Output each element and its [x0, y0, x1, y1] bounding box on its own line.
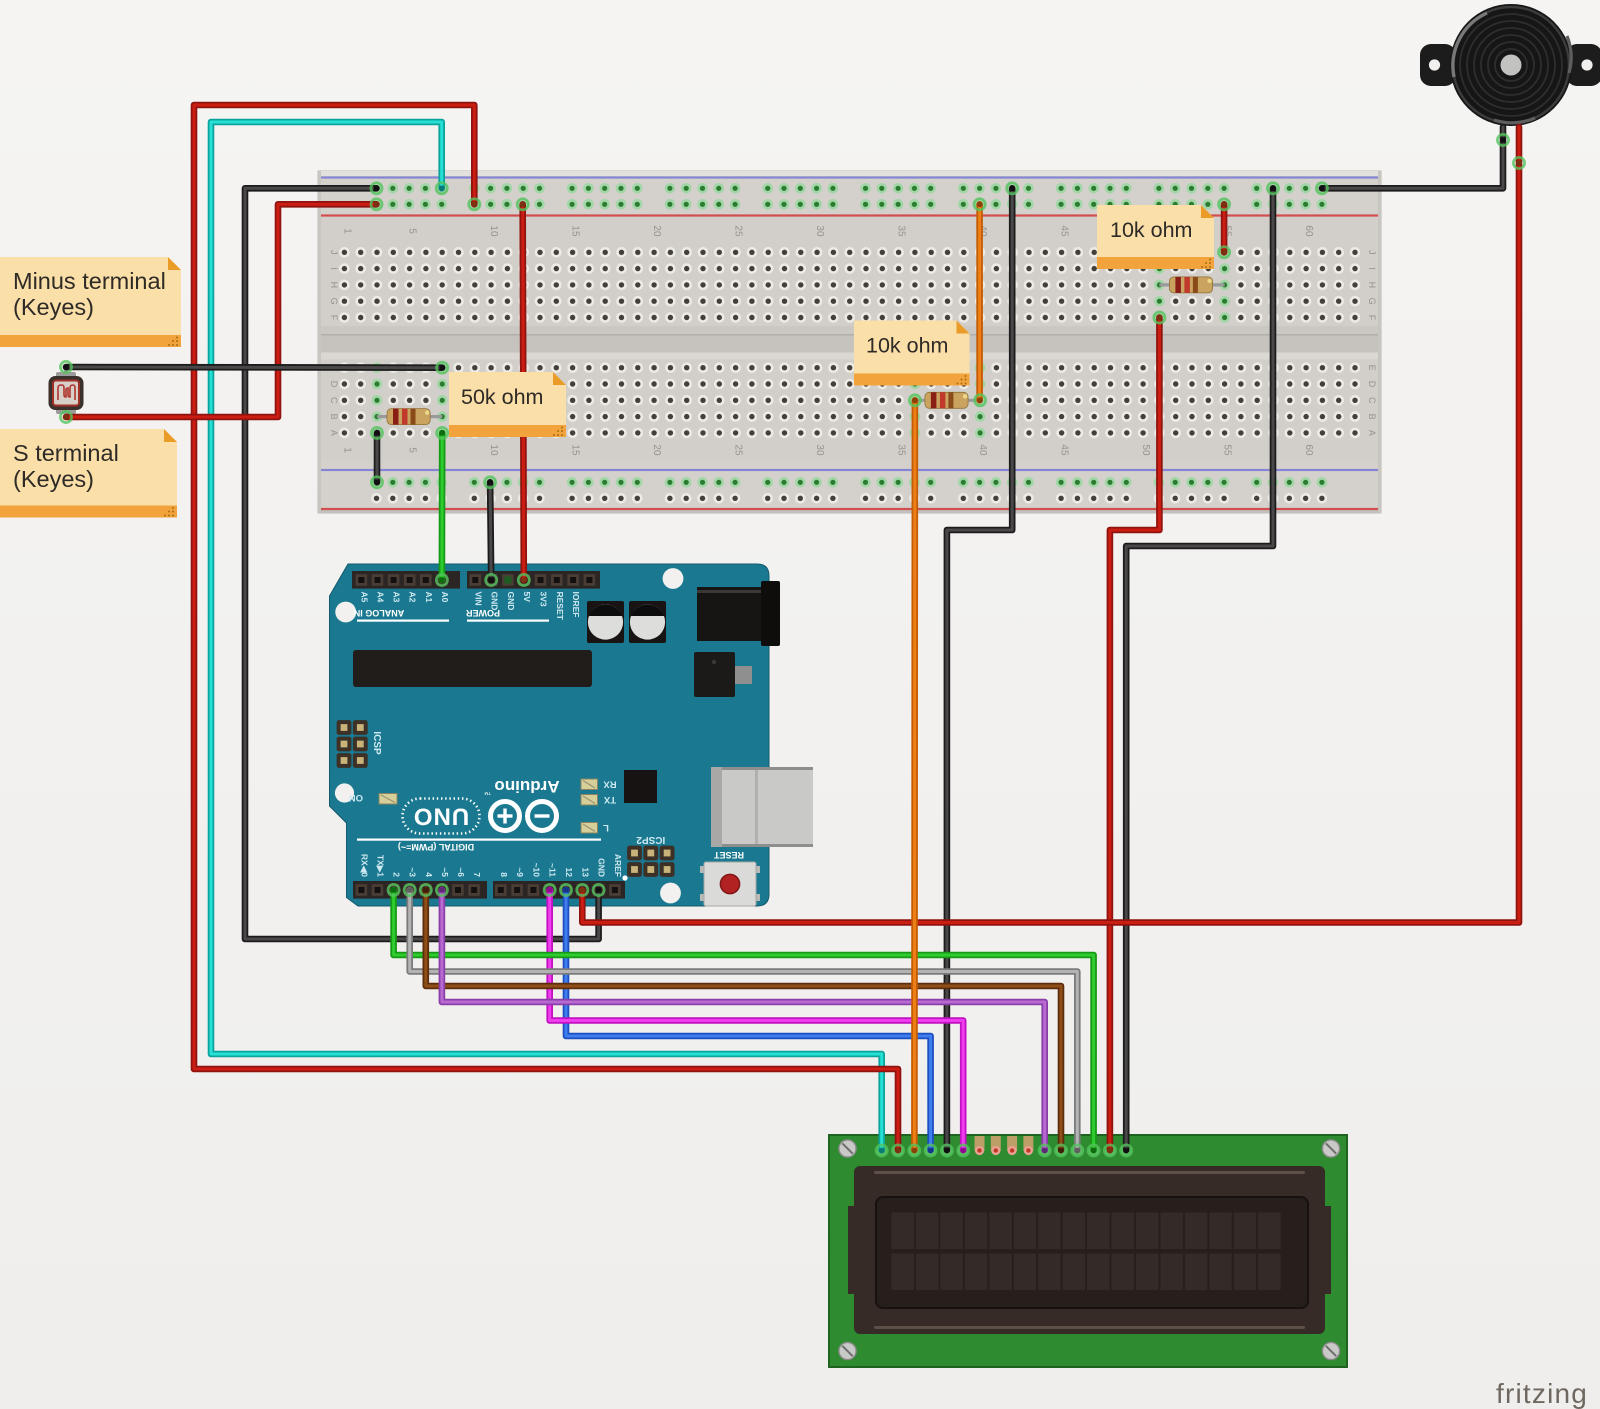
svg-text:VIN: VIN: [473, 592, 483, 606]
svg-text:TX▶1: TX▶1: [376, 855, 386, 877]
resistor R3 10k ohm: [1159, 277, 1224, 293]
svg-text:RX: RX: [603, 779, 617, 790]
svg-text:A0: A0: [440, 592, 450, 603]
wire green Arduino 2 to LCD D2 (green): [394, 890, 1094, 1150]
photoresistor LDR: [49, 367, 84, 417]
wire green breadboard A7 to Arduino A0 (green): [439, 433, 446, 580]
svg-text:A2: A2: [408, 592, 418, 603]
svg-text:GND: GND: [490, 592, 500, 611]
svg-text:30: 30: [814, 444, 825, 456]
svg-text:1: 1: [341, 228, 352, 234]
svg-text:D: D: [1367, 381, 1377, 388]
svg-text:~10: ~10: [531, 863, 541, 878]
wire brown Arduino 4 to LCD D4 (brown): [426, 890, 1061, 1150]
resistor R2 10k ohm: [915, 392, 980, 408]
wire purple Arduino 5 to LCD D5 (purple): [442, 890, 1045, 1150]
svg-text:RESET: RESET: [713, 850, 744, 860]
svg-text:45: 45: [1059, 444, 1070, 456]
arduino power header: [467, 571, 600, 589]
svg-text:I: I: [329, 267, 339, 270]
svg-text:TX: TX: [603, 794, 616, 805]
svg-text:(Keyes): (Keyes): [13, 466, 94, 492]
RESET button: [700, 850, 760, 906]
svg-text:7: 7: [472, 872, 482, 877]
svg-text:A1: A1: [424, 592, 434, 603]
wire red breadboard F51 to LCD A (red): [1110, 318, 1160, 1151]
note 50k ohm: [449, 372, 566, 437]
svg-text:8: 8: [499, 872, 509, 877]
svg-text:45: 45: [1059, 225, 1070, 237]
svg-text:20: 20: [651, 444, 662, 456]
svg-text:~5: ~5: [440, 867, 450, 877]
svg-text:TM: TM: [484, 791, 491, 796]
Arduino logo: [491, 802, 557, 831]
capacitor C1: [587, 601, 624, 643]
svg-text:30: 30: [814, 225, 825, 237]
svg-text:ICSP: ICSP: [371, 731, 382, 755]
svg-text:10k ohm: 10k ohm: [866, 334, 948, 358]
svg-text:ICSP2: ICSP2: [636, 834, 665, 845]
svg-text:20: 20: [651, 225, 662, 237]
svg-text:D: D: [329, 381, 339, 388]
wire orange resistor R2 to LCD V0 (orange): [911, 400, 918, 1150]
wire black buzzer - to GND rail (black): [1322, 127, 1503, 188]
svg-text:POWER: POWER: [466, 608, 501, 618]
svg-text:4: 4: [424, 872, 434, 877]
svg-text:5: 5: [407, 447, 418, 453]
wire black jumper A3 to -rail bottom (black): [374, 433, 381, 482]
svg-text:AREF: AREF: [613, 854, 623, 877]
svg-text:ON: ON: [349, 792, 363, 803]
svg-text:ANALOG IN: ANALOG IN: [354, 608, 405, 618]
svg-text:Arduino: Arduino: [494, 777, 559, 796]
wire red +rail to LDR (red): [66, 204, 377, 417]
svg-text:RX◀0: RX◀0: [359, 854, 369, 877]
svg-text:A4: A4: [376, 592, 386, 603]
svg-text:G: G: [329, 298, 339, 305]
svg-text:C: C: [329, 397, 339, 404]
wire cyan GND-rail to LCD VSS (cyan): [211, 122, 882, 1150]
arduino pin labels: [359, 592, 623, 878]
svg-text:(Keyes): (Keyes): [13, 294, 94, 320]
svg-text:J: J: [1367, 250, 1377, 255]
ICSP header: [337, 720, 382, 768]
wire black rail to LCD K (black): [1126, 188, 1273, 1150]
capacitor C2: [629, 601, 666, 643]
svg-text:~9: ~9: [515, 867, 525, 877]
svg-text:13: 13: [580, 868, 590, 878]
svg-text:12: 12: [564, 868, 574, 878]
svg-text:S terminal: S terminal: [13, 440, 119, 466]
svg-text:15: 15: [570, 225, 581, 237]
svg-text:55: 55: [1222, 444, 1233, 456]
svg-text:E: E: [1367, 365, 1377, 371]
svg-text:15: 15: [570, 444, 581, 456]
svg-text:Minus terminal: Minus terminal: [13, 268, 166, 294]
svg-text:2: 2: [392, 872, 402, 877]
svg-text:~6: ~6: [456, 867, 466, 877]
svg-text:GND: GND: [506, 592, 516, 611]
svg-text:60: 60: [1303, 225, 1314, 237]
svg-text:60: 60: [1303, 444, 1314, 456]
svg-text:A3: A3: [392, 592, 402, 603]
USB connector: [711, 767, 813, 847]
note 10k ohm right: [1097, 205, 1214, 269]
svg-text:5V: 5V: [522, 592, 532, 603]
svg-text:GND: GND: [597, 858, 607, 877]
svg-text:25: 25: [733, 444, 744, 456]
Arduino UNO board U1: [330, 564, 770, 906]
wire red Arduino 13 to buzzer + (red): [582, 127, 1519, 923]
svg-text:IOREF: IOREF: [571, 592, 581, 618]
svg-text:10: 10: [488, 225, 499, 237]
svg-text:5: 5: [407, 228, 418, 234]
svg-text:L: L: [603, 822, 609, 833]
svg-text:A: A: [329, 430, 339, 436]
note 10k ohm mid: [854, 321, 970, 386]
breadboard labels: [329, 225, 1377, 456]
wire black breadboard row1 to LCD RW (black): [947, 188, 1012, 1150]
svg-text:35: 35: [896, 444, 907, 456]
svg-text:50k ohm: 50k ohm: [461, 385, 543, 409]
LCD1602 display module: [829, 1135, 1347, 1367]
svg-text:50: 50: [1140, 444, 1151, 456]
svg-text:H: H: [329, 282, 339, 289]
svg-text:F: F: [329, 315, 339, 321]
wire red jumper +rail to J55 (red): [1221, 204, 1228, 252]
note s terminal: [0, 429, 177, 518]
svg-text:I: I: [1367, 267, 1377, 270]
power barrel jack: [697, 581, 780, 646]
UNO logo: [403, 799, 480, 834]
svg-text:fritzing: fritzing: [1496, 1378, 1588, 1409]
arduino mounting holes: [335, 568, 683, 903]
breadboard main grid holes: [339, 247, 1360, 438]
svg-text:3V3: 3V3: [539, 592, 549, 607]
svg-text:10: 10: [488, 444, 499, 456]
ICSP2 header: [622, 834, 674, 881]
svg-text:G: G: [1367, 298, 1377, 305]
breadboard power rails holes: [371, 183, 1327, 504]
svg-text:1: 1: [341, 447, 352, 453]
arduino digital headers: [353, 881, 625, 899]
wire black LDR S to breadboard E7 (black): [66, 364, 442, 371]
resistor R1 50k ohm: [377, 409, 442, 425]
svg-text:UNO: UNO: [413, 803, 469, 830]
svg-text:25: 25: [733, 225, 744, 237]
arduino silk labels: [354, 608, 601, 852]
connection points: [60, 134, 1524, 1156]
svg-text:J: J: [329, 250, 339, 255]
voltage regulator: [694, 652, 752, 697]
wire red Arduino 5V to +rail (red): [523, 204, 524, 580]
svg-text:B: B: [329, 414, 339, 420]
svg-text:F: F: [1367, 315, 1377, 321]
svg-text:H: H: [1367, 282, 1377, 289]
svg-text:A5: A5: [359, 592, 369, 603]
svg-text:~11: ~11: [548, 863, 558, 877]
wire blue Arduino 12 to LCD DB7 (blue): [566, 890, 931, 1150]
RX TX L LEDs: [581, 779, 617, 834]
piezo buzzer: [1420, 4, 1600, 126]
breadboard: [318, 171, 1381, 513]
wire black Arduino GND to -rail bottom (black): [490, 482, 491, 580]
svg-text:35: 35: [896, 225, 907, 237]
svg-text:DIGITAL (PWM=~): DIGITAL (PWM=~): [398, 842, 474, 852]
arduino analog header: [352, 571, 460, 589]
arduino IC socket: [353, 650, 592, 687]
svg-text:~3: ~3: [408, 867, 418, 877]
wire red +rail to LCD VDD (red): [194, 105, 898, 1150]
wire magenta Arduino 11 to LCD E (magenta): [550, 890, 964, 1150]
USB interface IC: [624, 770, 657, 803]
svg-text:RESET: RESET: [555, 592, 565, 621]
svg-text:C: C: [1367, 397, 1377, 404]
svg-text:A: A: [1367, 430, 1377, 436]
ON LED: [349, 792, 397, 804]
wire black GND rail to Arduino GND (black): [245, 188, 599, 939]
note minus terminal: [0, 257, 181, 347]
svg-text:B: B: [1367, 414, 1377, 420]
wire orange +rail to resistor R2 (orange): [976, 204, 983, 400]
svg-text:10k ohm: 10k ohm: [1110, 218, 1192, 242]
wire gray Arduino 3 to LCD D3 (gray): [410, 890, 1078, 1150]
svg-text:40: 40: [977, 444, 988, 456]
